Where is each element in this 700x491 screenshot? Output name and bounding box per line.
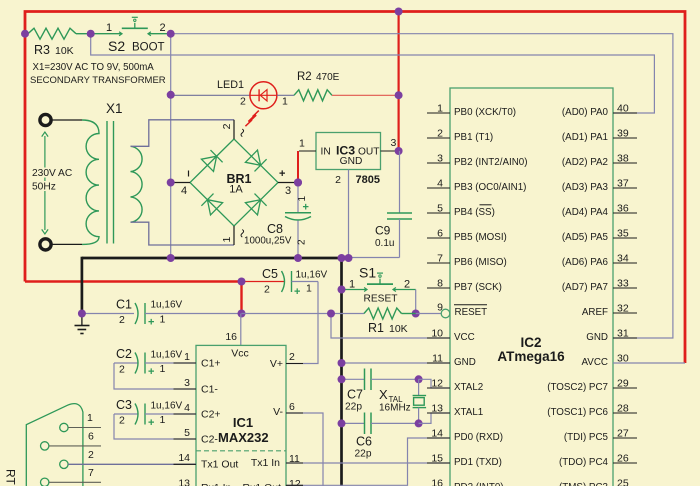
svg-text:2: 2 (119, 364, 125, 376)
LED1 emission arrows (245, 111, 258, 127)
label 230V AC 50Hz (31, 168, 72, 193)
svg-text:1: 1 (349, 279, 355, 291)
svg-text:C2-: C2- (201, 434, 218, 446)
label MAX232 right pin names (242, 358, 283, 491)
svg-text:AVCC: AVCC (582, 357, 609, 368)
svg-text:0.1u: 0.1u (375, 238, 394, 249)
IC2 RESET bubble (441, 309, 450, 318)
node R3 left (21, 30, 29, 38)
svg-text:1: 1 (299, 138, 305, 150)
svg-text:28: 28 (617, 403, 629, 415)
label S2 pins (106, 22, 166, 34)
svg-text:XTAL1: XTAL1 (454, 407, 483, 418)
diode BR1 bottom-right (245, 194, 266, 215)
wire BR1 bottom lead (233, 226, 235, 245)
svg-text:37: 37 (617, 178, 629, 190)
IC2 pin 27 (TDI) PC5 (564, 428, 637, 444)
svg-text:C7: C7 (347, 388, 363, 402)
svg-text:VCC: VCC (454, 332, 475, 343)
wire LED to R2 (277, 94, 294, 96)
IC2 pin 12 XTAL2 (427, 378, 483, 394)
label XTAL (379, 387, 411, 414)
capacitor C1 (82, 303, 242, 324)
capacitor C6 (342, 413, 419, 435)
diode BR1 top-left (201, 150, 222, 171)
svg-text:R2: R2 (297, 71, 312, 83)
MAX232 dashed divider (196, 450, 286, 452)
svg-text:PB3 (OC0/AIN1): PB3 (OC0/AIN1) (454, 182, 526, 193)
wire Tx1In to PD1 (286, 462, 450, 464)
wire S2 pin2 to GND pin31 (171, 34, 673, 338)
svg-text:2: 2 (335, 174, 341, 186)
IC2 pin 1 PB0 (XCK/T0) (427, 103, 516, 119)
node C1 ground (78, 310, 86, 318)
IC2 pin 14 PD0 (RXD) (427, 428, 503, 444)
wire LED row left (171, 94, 250, 96)
node bus/IC3gnd (338, 254, 353, 262)
IC2 pin 29 (TOSC2) PC7 (547, 378, 637, 394)
svg-text:1u,16V: 1u,16V (151, 350, 183, 361)
IC3 pin1 lead (299, 138, 316, 152)
node R2 right (395, 91, 403, 99)
svg-text:1: 1 (160, 363, 166, 375)
label COM PORT (4, 469, 18, 485)
svg-text:Vcc: Vcc (231, 348, 249, 360)
DB9 pin2 (60, 449, 196, 468)
wire Vcc to MAX232 (240, 314, 242, 346)
svg-text:PB0 (XCK/T0): PB0 (XCK/T0) (454, 107, 516, 118)
LED LED1 (250, 82, 277, 109)
node C6 left (338, 419, 346, 427)
svg-text:+: + (294, 286, 300, 298)
svg-text:14: 14 (178, 452, 190, 464)
svg-text:1u,16V: 1u,16V (151, 401, 183, 412)
IC2 pin 13 XTAL1 (427, 403, 483, 419)
svg-text:3: 3 (437, 153, 443, 165)
label MAX232 left pin numbers (178, 351, 190, 490)
svg-text:C3: C3 (116, 398, 132, 412)
label BR1 pin4 (181, 171, 189, 198)
IC2 pin 37 (AD3) PA3 (562, 178, 637, 194)
node GND pin11 (338, 359, 346, 367)
label RESET switch (364, 294, 398, 305)
svg-text:1: 1 (184, 351, 190, 363)
label LED1 (217, 79, 244, 91)
svg-text:9: 9 (437, 302, 443, 314)
label S2 (108, 38, 165, 54)
regulator IC3 box (316, 133, 381, 170)
svg-text:AREF: AREF (582, 307, 608, 318)
svg-text:SECONDARY TRANSFORMER: SECONDARY TRANSFORMER (30, 75, 166, 86)
svg-text:4: 4 (181, 185, 187, 197)
label LED1 pins (240, 96, 288, 108)
IC2 pin 5 PB4 (SS) (427, 203, 495, 219)
svg-text:RESET: RESET (455, 307, 488, 318)
svg-text:22p: 22p (355, 449, 372, 460)
label C8 (244, 222, 292, 247)
wire red +5V row (25, 280, 242, 283)
svg-text:PB2 (INT2/AIN0): PB2 (INT2/AIN0) (454, 157, 528, 168)
svg-text:38: 38 (617, 153, 629, 165)
svg-text:2: 2 (119, 415, 125, 427)
svg-text:RT: RT (4, 469, 18, 485)
svg-text:31: 31 (617, 328, 629, 340)
svg-text:(AD1) PA1: (AD1) PA1 (562, 132, 608, 143)
ground symbol (75, 314, 90, 334)
label IC3 texts (321, 144, 380, 168)
DB9 pin7 (41, 467, 102, 486)
node IC3 OUT (395, 147, 403, 155)
svg-text:(TDO) PC4: (TDO) PC4 (559, 457, 609, 468)
wire XTAL1 jog (419, 413, 450, 423)
label BR1 ac mark bottom (241, 230, 244, 238)
IC2 pin 32 AREF (582, 303, 637, 319)
IC2 pin 36 (AD4) PA4 (562, 203, 637, 219)
svg-text:2: 2 (437, 128, 443, 140)
bridge BR1 outline (190, 139, 278, 226)
label IC1 (233, 415, 253, 430)
svg-text:7805: 7805 (356, 174, 380, 186)
wire S2 pin2 down (170, 34, 172, 258)
label transformer note (30, 62, 166, 86)
svg-text:C6: C6 (356, 435, 372, 449)
IC2 pin 26 (TDO) PC4 (559, 453, 637, 469)
IC2 pin 6 PB5 (MOSI) (427, 228, 507, 244)
svg-text:PB6 (MISO): PB6 (MISO) (454, 257, 507, 268)
svg-text:2: 2 (297, 239, 308, 245)
label S1 (349, 265, 410, 291)
svg-text:13: 13 (178, 478, 190, 487)
node C8 bottom (294, 254, 302, 262)
svg-text:1000u,25V: 1000u,25V (244, 236, 292, 247)
svg-text:15: 15 (431, 453, 443, 465)
svg-text:MAX232: MAX232 (218, 430, 269, 445)
svg-text:4: 4 (437, 178, 443, 190)
svg-text:(TMS) PC3: (TMS) PC3 (559, 482, 609, 486)
svg-text:29: 29 (617, 378, 629, 390)
svg-text:7: 7 (437, 253, 443, 265)
label 7805 (356, 174, 380, 186)
label IC2 (497, 335, 565, 364)
svg-text:PD1 (TXD): PD1 (TXD) (454, 457, 502, 468)
svg-text:(AD7) PA7: (AD7) PA7 (562, 282, 608, 293)
svg-text:+: + (303, 202, 309, 214)
svg-text:33: 33 (617, 278, 629, 290)
wire VCC dogleg to pin10 (331, 314, 450, 339)
svg-text:10K: 10K (55, 45, 74, 57)
svg-text:3: 3 (285, 185, 291, 197)
wire secondary bottom to bridge (131, 222, 235, 245)
MAX232 V- wire (286, 413, 323, 486)
svg-text:22p: 22p (345, 402, 362, 413)
label C1 (116, 298, 183, 329)
svg-text:GND: GND (454, 357, 476, 368)
wire terminal top to primary (52, 119, 83, 121)
svg-text:GND: GND (586, 332, 608, 343)
label X1 (106, 101, 123, 116)
svg-text:1: 1 (306, 283, 312, 295)
label C9 (375, 224, 394, 250)
svg-text:3: 3 (391, 137, 397, 149)
node BR1 pin3 (294, 179, 302, 187)
svg-text:X1: X1 (106, 101, 123, 116)
node C8 top (294, 179, 302, 187)
svg-text:(TOSC1) PC6: (TOSC1) PC6 (547, 407, 608, 418)
IC3 pin3 lead (381, 137, 399, 151)
svg-text:(AD0) PA0: (AD0) PA0 (562, 107, 609, 118)
IC2 pin 8 PB7 (SCK) (427, 278, 502, 294)
capacitor C3 (114, 404, 196, 440)
label MAX232 right pin numbers (289, 351, 301, 490)
svg-text:14: 14 (431, 428, 443, 440)
svg-text:5: 5 (184, 427, 190, 439)
wire Rx1Out to PD0 (286, 438, 450, 485)
diode BR1 top-right (245, 150, 266, 171)
transformer X1 core (107, 121, 114, 244)
label C2 (116, 347, 183, 378)
IC2 ATmega16 box (450, 88, 613, 491)
wire BR1 pin4 lead (171, 182, 190, 184)
wire AVCC pin30 (613, 362, 685, 364)
IC2 pin 35 (AD5) PA5 (562, 228, 637, 244)
svg-text:16: 16 (225, 331, 237, 343)
IC2 pin 28 (TOSC1) PC6 (547, 403, 637, 419)
svg-text:C8: C8 (267, 222, 283, 236)
svg-text:6: 6 (437, 228, 443, 240)
svg-text:1u,16V: 1u,16V (296, 270, 328, 281)
DB9 pin1 (60, 412, 101, 432)
svg-text:(AD4) PA4: (AD4) PA4 (562, 207, 609, 218)
svg-text:IN: IN (321, 147, 331, 158)
label C8 pin1 (297, 196, 308, 202)
IC2 pin 39 (AD1) PA1 (562, 128, 637, 144)
svg-text:230V AC: 230V AC (32, 168, 72, 179)
svg-text:X: X (379, 387, 388, 402)
IC2 pin 30 AVCC (582, 353, 638, 369)
IC2 pin 3 PB2 (INT2/AIN0) (427, 153, 528, 169)
wire GND pin11 (342, 362, 451, 364)
switch S2 (91, 17, 171, 35)
svg-text:36: 36 (617, 203, 629, 215)
svg-text:13: 13 (431, 403, 443, 415)
IC2 pin 7 PB6 (MISO) (427, 253, 507, 269)
diode BR1 bottom-left (201, 194, 222, 215)
svg-text:PB7 (SCK): PB7 (SCK) (454, 282, 502, 293)
svg-text:1: 1 (106, 22, 112, 34)
label C3 (116, 398, 183, 429)
label C8 pin2 (297, 239, 308, 245)
svg-text:6: 6 (88, 431, 94, 443)
svg-text:(AD6) PA6: (AD6) PA6 (562, 257, 609, 268)
svg-text:LED1: LED1 (217, 79, 244, 91)
svg-text:32: 32 (617, 303, 629, 315)
svg-text:C1-: C1- (201, 384, 218, 396)
label R2 (297, 71, 340, 83)
svg-text:(TDI) PC5: (TDI) PC5 (564, 432, 609, 443)
svg-text:XTAL2: XTAL2 (454, 382, 483, 393)
wire red C5 feed (242, 281, 285, 283)
wire VCC top/left/right red rail (25, 12, 685, 364)
node C1 right (238, 310, 246, 318)
node S2 line on bus (167, 254, 175, 262)
wire red drop to C1 row (240, 282, 242, 314)
MAX232 pin stubs (174, 363, 304, 485)
svg-text:S1: S1 (359, 265, 376, 281)
svg-text:Rx1 Out: Rx1 Out (242, 482, 281, 486)
svg-text:1: 1 (297, 196, 308, 202)
wire GND bus horizontal (82, 257, 349, 260)
wire red drop to IC3 OUT (398, 12, 400, 152)
wire R1 to RESET pin (416, 313, 441, 315)
svg-text:5: 5 (437, 203, 443, 215)
svg-text:RESET: RESET (364, 294, 398, 305)
svg-text:11: 11 (432, 353, 443, 365)
wire GND bus left drop (81, 257, 84, 314)
IC2 pin 31 GND (586, 328, 637, 344)
IC2 pin 4 PB3 (OC0/AIN1) (427, 178, 526, 194)
svg-text:+: + (148, 317, 154, 329)
svg-text:2: 2 (119, 314, 125, 326)
node S1 pin2 (412, 310, 420, 318)
svg-text:50Hz: 50Hz (32, 182, 56, 193)
wire GND vertical rail (340, 258, 343, 486)
svg-text:470E: 470E (316, 72, 340, 83)
svg-text:(AD2) PA2: (AD2) PA2 (562, 157, 608, 168)
node BR1 pin4 (167, 179, 175, 187)
svg-text:PD0 (RXD): PD0 (RXD) (454, 432, 503, 443)
svg-text:1u,16V: 1u,16V (151, 300, 183, 311)
svg-text:C5: C5 (262, 267, 278, 281)
svg-text:(AD3) PA3: (AD3) PA3 (562, 182, 609, 193)
label MAX232 Vcc pin (225, 331, 248, 360)
label C8 plus (303, 202, 309, 214)
IC2 pin 34 (AD6) PA6 (562, 253, 637, 269)
svg-text:R1: R1 (368, 321, 384, 335)
svg-text:2: 2 (88, 449, 94, 461)
transformer X1 primary winding (82, 120, 99, 244)
svg-text:PD2 (INT0): PD2 (INT0) (454, 482, 504, 486)
label C7 (345, 388, 363, 413)
label R3 (34, 43, 74, 57)
svg-text:PB5 (MOSI): PB5 (MOSI) (454, 232, 507, 243)
node C6 right (415, 419, 423, 427)
svg-text:4: 4 (184, 402, 190, 414)
svg-text:2: 2 (404, 279, 410, 291)
label BR1 pin3 (279, 168, 291, 197)
svg-text:V-: V- (273, 406, 283, 418)
svg-text:25: 25 (617, 478, 629, 486)
svg-text:Tx1 In: Tx1 In (251, 457, 280, 469)
svg-text:IC1: IC1 (233, 415, 253, 430)
IC3 pin2 lead (335, 170, 348, 259)
svg-text:IC2: IC2 (520, 335, 541, 350)
IC2 pin 11 GND (427, 353, 476, 369)
svg-text:PB4 (SS): PB4 (SS) (454, 207, 495, 218)
svg-text:1: 1 (221, 237, 233, 243)
label MAX232 left pin names (201, 358, 238, 491)
svg-text:C2+: C2+ (201, 409, 221, 421)
svg-text:1A: 1A (229, 184, 243, 196)
svg-text:2: 2 (240, 96, 246, 108)
IC2 pin 38 (AD2) PA2 (562, 153, 637, 169)
IC1 MAX232 box (196, 345, 286, 491)
svg-text:C1+: C1+ (201, 358, 221, 370)
svg-text:1: 1 (160, 314, 166, 326)
capacitor C5 (282, 271, 319, 364)
terminal top (40, 114, 51, 125)
label C5 (262, 267, 328, 298)
svg-text:26: 26 (617, 453, 629, 465)
svg-text:+: + (279, 168, 285, 180)
IC2 pin 16 PD2 (INT0) (427, 478, 504, 491)
svg-text:C9: C9 (375, 224, 391, 238)
IC2 pin 25 (TMS) PC3 (559, 478, 637, 491)
node red row (238, 278, 246, 286)
svg-text:2: 2 (289, 351, 295, 363)
svg-text:27: 27 (617, 428, 629, 440)
label MAX232 (218, 430, 269, 445)
svg-text:12: 12 (431, 378, 443, 390)
capacitor C8 (285, 183, 311, 259)
svg-text:34: 34 (617, 253, 629, 265)
resistor R3 (28, 28, 91, 39)
IC2 pin 10 VCC (427, 328, 475, 344)
svg-text:+: + (148, 366, 154, 378)
node R3/S2 (87, 30, 95, 38)
svg-text:2: 2 (221, 123, 233, 129)
svg-text:C1: C1 (116, 298, 132, 312)
svg-text:3: 3 (184, 377, 190, 389)
node S2 pin2 (167, 30, 175, 38)
label BR1 pin1 (221, 237, 233, 243)
IC2 pin 15 PD1 (TXD) (427, 453, 502, 469)
svg-text:+: + (148, 417, 154, 429)
svg-text:16: 16 (431, 478, 443, 486)
label BR1 (226, 172, 251, 196)
wire XTAL2 jog (419, 379, 450, 388)
transformer X1 secondary winding (131, 146, 143, 222)
crystal XTAL (413, 379, 427, 423)
node red top rail (395, 8, 403, 16)
svg-text:C2: C2 (116, 347, 132, 361)
node C7 right (415, 375, 423, 383)
IC2 pin 33 (AD7) PA7 (562, 278, 637, 294)
svg-text:39: 39 (617, 128, 629, 140)
label R1 (368, 321, 408, 335)
svg-text:35: 35 (617, 228, 629, 240)
svg-text:BOOT: BOOT (132, 42, 165, 54)
svg-text:V+: V+ (270, 358, 283, 370)
svg-text:Rx1 In: Rx1 In (201, 482, 232, 486)
resistor R1 (364, 308, 416, 319)
svg-text:8: 8 (437, 278, 443, 290)
connector DB9 outline (26, 404, 83, 486)
resistor R2 (294, 90, 399, 101)
svg-text:ATmega16: ATmega16 (497, 349, 565, 364)
svg-text:Tx1 Out: Tx1 Out (201, 459, 238, 471)
svg-text:10K: 10K (389, 323, 408, 335)
wire BR1 pin3 lead (278, 182, 298, 184)
arrow 230V AC (42, 132, 48, 234)
switch S1 (342, 273, 416, 291)
label C6 (355, 435, 373, 460)
node C7 left (338, 375, 346, 383)
IC2 pin 2 PB1 (T1) (427, 128, 493, 144)
svg-text:PB1 (T1): PB1 (T1) (454, 132, 493, 143)
node VCC dogleg (327, 310, 335, 318)
svg-text:7: 7 (88, 467, 94, 479)
svg-text:2: 2 (160, 22, 166, 34)
